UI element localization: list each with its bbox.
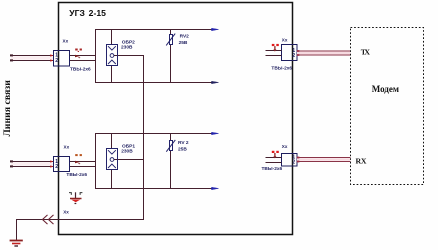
varistor RV2 (166, 140, 189, 153)
wire: tube1 top lead (111, 29, 113, 45)
svg-text:TX: TX (361, 48, 371, 57)
svg-text:ТВЫ-2х6: ТВЫ-2х6 (271, 66, 292, 72)
wire: X3 left stubs (266, 51, 282, 56)
chevron << on ground wire (43, 215, 54, 224)
wire: top rail (95, 133, 212, 135)
svg-text:ТВЫ-2х6: ТВЫ-2х6 (70, 67, 91, 73)
svg-text:ТВЫ-2х6: ТВЫ-2х6 (262, 166, 283, 172)
wire: tube2 top lead (111, 133, 113, 149)
gas arrester tube FV2 (ОБР1) (107, 149, 118, 170)
svg-text:ТВЫ-2х6: ТВЫ-2х6 (66, 172, 87, 178)
wire: bottom rail (95, 82, 212, 84)
wire end cap line C (10, 160, 13, 162)
svg-text:RX: RX (356, 157, 367, 166)
svg-text:Хх: Хх (64, 145, 70, 150)
red terminal stub X3 pin 1 (297, 50, 300, 52)
svg-text:Хх: Хх (282, 144, 288, 149)
varistor RV1 (166, 34, 189, 46)
red terminal stub X4 pin 2 (297, 161, 300, 163)
red terminal stub X4 pin 1 (297, 157, 300, 159)
red port marks left of X4 (272, 151, 279, 159)
wire: line pair left bottom (11, 161, 54, 163)
svg-text:2: 2 (55, 58, 58, 64)
wire: vertical junction column (95, 29, 97, 83)
wire: top rail (95, 29, 212, 31)
wire: X4 left stubs (266, 158, 282, 163)
blue net arrow rail 4 (212, 187, 219, 189)
wire end cap line B (10, 59, 13, 61)
wire: vertical junction column (95, 133, 97, 189)
red terminal stub X3 pin 2 (297, 54, 300, 56)
wire: varistor2 column (170, 133, 172, 141)
red port marks right of X1 (75, 49, 82, 53)
svg-text:2: 2 (292, 53, 295, 59)
red port marks left of X3 (272, 44, 279, 52)
wire: tube1 bottom lead (111, 66, 113, 84)
svg-text:230В: 230В (121, 149, 133, 155)
red junction arrow on X2 wire (75, 161, 81, 165)
wire: TX pair lines (297, 51, 351, 55)
wire: tube1 middle electrode to ground column (114, 55, 144, 57)
gas arrester tube FV1 (ОБР2) (107, 45, 118, 66)
svg-text:2: 2 (55, 164, 58, 170)
blue net arrow bottom rail (212, 81, 219, 83)
svg-text:Линия связи: Линия связи (2, 80, 13, 137)
wire: connector X2 to node column (70, 161, 97, 163)
svg-text:2: 2 (292, 160, 295, 166)
svg-text:230В: 230В (121, 45, 133, 51)
wire end cap line D (10, 165, 13, 167)
wire end cap line A (10, 54, 13, 56)
connector X2 (54, 145, 88, 178)
ground wire to earth (16, 219, 144, 240)
svg-text:ОБР2: ОБР2 (122, 39, 135, 45)
svg-text:RV2: RV2 (180, 34, 190, 40)
wire pair glow top line (11, 56, 53, 59)
svg-text:RV 2: RV 2 (178, 140, 189, 146)
wire: varistor1 column (170, 29, 172, 35)
red junction arrow on X1 wire (75, 55, 81, 59)
red arrows at X1 left pins (50, 54, 53, 62)
signal ground symbol below X2 (69, 192, 82, 204)
outer device box УГЗ 2-15 (59, 3, 293, 235)
earth ground symbol bottom left (10, 241, 23, 247)
svg-text:25В: 25В (179, 40, 188, 46)
wire: connector X1 to node column (70, 55, 97, 57)
wire pair glow TX (297, 52, 351, 55)
svg-text:Хх: Хх (63, 209, 69, 214)
wire: bottom rail (95, 188, 212, 190)
svg-text:Хх: Хх (282, 38, 288, 43)
modem dashed box (351, 28, 424, 185)
wire pair glow bottom line (11, 162, 53, 165)
connector X1 (54, 38, 92, 72)
wire: tube2 bottom lead (111, 170, 113, 190)
svg-text:Модем: Модем (372, 84, 399, 94)
svg-text:25В: 25В (178, 147, 187, 153)
wire: tube2 middle electrode (114, 159, 144, 161)
blue net arrow rail 3 (212, 132, 219, 134)
svg-text:Хх: Хх (63, 38, 69, 43)
wire: RX pair lines (297, 158, 351, 162)
wire pair glow RX (297, 158, 351, 160)
svg-text:УГЗ 2-15: УГЗ 2-15 (69, 8, 106, 18)
wire: line pair left top (11, 55, 54, 57)
connector X3 (to modem TX) (271, 38, 297, 72)
connector X4 (to modem RX) (262, 144, 298, 172)
red port marks right of X2 (75, 154, 82, 156)
red arrows at X2 left pins (50, 160, 53, 168)
svg-text:ОБР1: ОБР1 (122, 143, 135, 149)
blue net arrow top rail (212, 28, 219, 30)
